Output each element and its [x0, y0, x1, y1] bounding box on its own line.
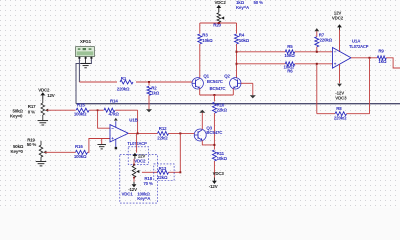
- svg-text:50 %: 50 %: [254, 0, 264, 5]
- svg-text:Key=0: Key=0: [11, 149, 24, 154]
- svg-text:70 %: 70 %: [143, 181, 153, 186]
- svg-text:R17: R17: [28, 104, 36, 109]
- svg-text:R16: R16: [75, 144, 83, 149]
- svg-text:R15: R15: [77, 102, 85, 107]
- svg-text:220kΩ: 220kΩ: [320, 37, 333, 42]
- svg-text:R13: R13: [159, 166, 167, 171]
- svg-text:100kΩ: 100kΩ: [74, 111, 87, 116]
- svg-text:R5: R5: [287, 44, 293, 49]
- svg-text:BC547C: BC547C: [207, 79, 224, 84]
- svg-text:22kΩ: 22kΩ: [157, 175, 168, 180]
- svg-text:+: +: [111, 136, 114, 141]
- svg-text:R9: R9: [378, 49, 384, 54]
- svg-text:VDC3: VDC3: [213, 171, 225, 176]
- svg-text:12V: 12V: [47, 93, 55, 98]
- svg-text:22kΩ: 22kΩ: [217, 108, 228, 113]
- svg-text:R12: R12: [159, 126, 167, 131]
- svg-text:Key=0: Key=0: [10, 114, 23, 119]
- svg-text:U1B: U1B: [129, 117, 137, 122]
- svg-text:TL072ACP: TL072ACP: [127, 141, 147, 146]
- svg-text:R6: R6: [287, 68, 293, 73]
- svg-text:R14: R14: [110, 99, 118, 104]
- svg-text:100kΩ: 100kΩ: [74, 154, 87, 159]
- svg-text:R11: R11: [217, 151, 225, 156]
- svg-text:VDC2: VDC2: [332, 15, 344, 20]
- svg-text:47kΩ: 47kΩ: [109, 111, 120, 116]
- svg-text:−: −: [334, 50, 337, 55]
- svg-text:VDC2: VDC2: [38, 87, 50, 92]
- svg-text:1kΩ: 1kΩ: [378, 59, 387, 64]
- svg-text:VDC2: VDC2: [215, 0, 227, 5]
- svg-text:22kΩ: 22kΩ: [157, 135, 168, 140]
- svg-text:Key=A: Key=A: [137, 196, 151, 201]
- svg-text:R1: R1: [121, 76, 127, 81]
- svg-text:+: +: [334, 62, 337, 67]
- svg-text:TL072ACP: TL072ACP: [349, 44, 369, 49]
- svg-text:VDC3: VDC3: [335, 95, 347, 100]
- svg-text:XFG1: XFG1: [80, 39, 92, 44]
- svg-text:BC547C: BC547C: [206, 130, 223, 135]
- svg-text:50 %: 50 %: [27, 142, 37, 147]
- svg-text:10kΩ: 10kΩ: [239, 38, 250, 43]
- svg-text:1kΩ: 1kΩ: [151, 90, 160, 95]
- svg-text:220kΩ: 220kΩ: [334, 115, 347, 120]
- svg-text:R10: R10: [217, 102, 225, 107]
- svg-text:-12V: -12V: [209, 184, 218, 189]
- svg-text:−: −: [111, 126, 114, 131]
- svg-text:10kΩ: 10kΩ: [217, 156, 228, 161]
- svg-text:Key=A: Key=A: [236, 5, 250, 10]
- svg-text:R8: R8: [336, 106, 342, 111]
- svg-text:BC547C: BC547C: [210, 86, 227, 91]
- svg-text:Q1: Q1: [203, 74, 209, 79]
- svg-text:U1A: U1A: [352, 39, 361, 44]
- svg-text:0 %: 0 %: [28, 109, 35, 114]
- svg-text:10kΩ: 10kΩ: [202, 38, 213, 43]
- svg-text:Q2: Q2: [224, 74, 230, 79]
- svg-text:220kΩ: 220kΩ: [117, 86, 130, 91]
- svg-text:10kΩ: 10kΩ: [284, 53, 295, 58]
- svg-text:VDC1: VDC1: [122, 192, 134, 197]
- svg-text:VDC2: VDC2: [134, 159, 146, 164]
